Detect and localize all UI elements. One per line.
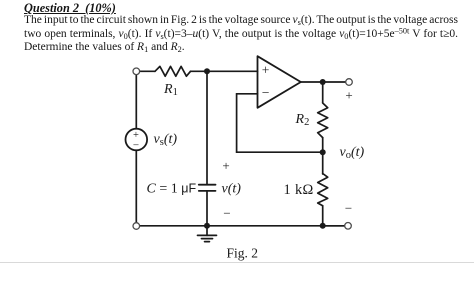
terminal: input top-left [133,68,140,75]
node C junction dot [320,79,326,85]
faint scan line [0,262,474,263]
resistor R1 [155,66,191,76]
svg-text:−: − [345,201,352,216]
svg-text:−: − [223,205,230,220]
svg-text:vo(t): vo(t) [340,145,365,161]
svg-text:1 kΩ: 1 kΩ [284,182,314,198]
wire: node C down to R2 [322,82,324,103]
svg-text:+: + [262,63,270,78]
svg-text:+: + [345,88,352,103]
capacitor C top plate [199,184,216,186]
svg-text:vs(t): vs(t) [154,132,178,148]
paragraph line 1 [24,14,458,27]
wire: top-left terminal down to source + [135,75,137,129]
wire: R1 to node A [191,70,208,72]
node E junction dot [204,223,210,229]
svg-text:C = 1 μF: C = 1 μF [147,181,197,196]
wire: source - down to bottom-left terminal [135,150,137,222]
svg-text:−: − [262,85,270,100]
wire: node D to bottom-right terminal [323,225,345,227]
wire: R2 to node B [322,138,324,153]
paragraph line 2 [24,28,458,41]
wire: feedback horizontal to node B [237,151,323,153]
wire: op-amp - input stub [237,93,258,95]
terminal: input bottom-left [133,223,140,230]
wire: node A to op-amp + input [207,70,258,72]
op-amp U1 [258,56,301,108]
svg-text:R1: R1 [163,82,178,98]
wire: bottom rail [140,225,345,227]
svg-text:+: + [222,158,229,173]
node D junction dot [320,223,326,229]
terminal: output top-right [346,79,353,86]
node A junction dot [204,68,210,74]
svg-text:R2: R2 [295,112,310,128]
svg-text:−: − [133,140,139,152]
resistor 1 kOhm [318,174,328,206]
ground [198,226,217,242]
voltage source vs [126,129,148,151]
svg-text:v(t): v(t) [222,181,242,196]
terminal: output bottom-right [345,223,352,230]
wire: node C to top-right terminal [323,81,346,83]
wire: feedback vertical [236,94,238,152]
title Question 2 (10%) [24,1,116,16]
wire: top-left terminal to R1 [140,70,155,72]
wire: node B down to 1k resistor [322,152,324,174]
capacitor C bottom plate [199,190,216,192]
node B junction dot [320,149,326,155]
paragraph line 3 [24,41,185,54]
wire: 1k resistor to node D [322,206,324,226]
wire: capacitor bottom to node E [206,191,208,226]
svg-text:Fig. 2: Fig. 2 [227,246,259,261]
resistor R2 [318,103,328,138]
wire: node A down to capacitor top [206,71,208,184]
wire: op-amp output to node C [301,81,323,83]
